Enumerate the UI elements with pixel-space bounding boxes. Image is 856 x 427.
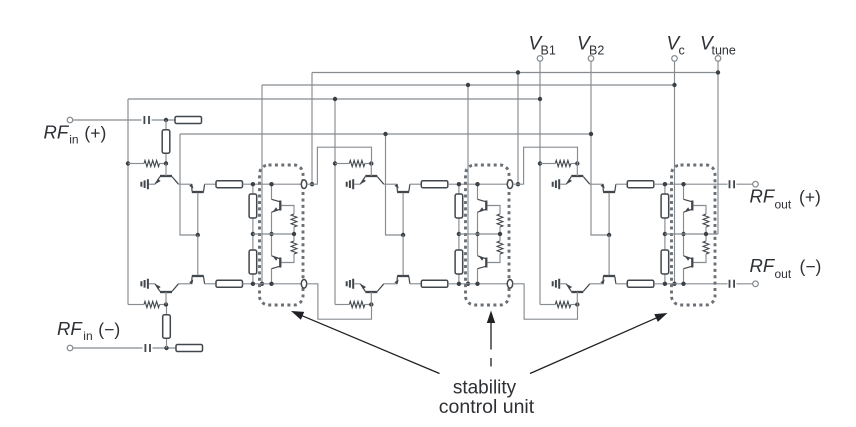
wire bus Vtune y=72.5 <box>312 72 718 74</box>
wire to RFout- <box>736 283 753 285</box>
wire Vtune vertical to box3 rail <box>717 73 719 235</box>
capacitor C1 <box>144 116 149 124</box>
capacitor C3 output+ <box>730 180 735 188</box>
feedthrough lower box1 <box>301 280 306 289</box>
wire C2 to node <box>153 347 177 349</box>
wire transistor column box2 <box>477 184 479 199</box>
transistor Q6 cascode upper stage2 <box>397 191 409 193</box>
resistor upper box3 <box>661 194 669 218</box>
svg-text:c: c <box>679 44 685 58</box>
wire Q4 collector to TL <box>204 283 216 285</box>
terminal Vtune <box>715 56 721 62</box>
svg-text:tune: tune <box>712 44 736 58</box>
svg-text:out: out <box>775 198 792 212</box>
resistor R2 input <box>166 305 168 349</box>
svg-text:(+): (+) <box>84 123 106 143</box>
transistor lower box3 <box>691 258 693 268</box>
wire shunt resistor column box1 <box>252 184 254 284</box>
transmission line upper stage1 <box>216 181 243 188</box>
wire Q1 collector to Q2 emitter <box>179 183 192 185</box>
resistor zigzag lower box1 <box>291 241 297 254</box>
wire Q2 base <box>197 193 199 235</box>
stability control unit box2 dashed outline <box>466 165 510 305</box>
arrow to box1 <box>298 314 440 374</box>
wire transistor column box1 <box>271 184 273 199</box>
wire bus VB1 y=99 <box>128 98 540 100</box>
wire Q8 base <box>402 235 404 275</box>
current source upper stage3 <box>553 179 560 189</box>
svg-text:B2: B2 <box>589 44 604 58</box>
wire coupling upper box2 to stage3 <box>513 147 578 184</box>
resistor zigzag lower box2 <box>497 241 503 254</box>
wire coupling upper box1 to stage2 <box>307 147 372 184</box>
feedthrough upper box1 <box>301 180 306 189</box>
svg-text:stability: stability <box>453 377 517 398</box>
wire VB1 feed stage2 <box>334 99 336 305</box>
transistor Q8 cascode lower stage2 <box>397 275 409 277</box>
wire Q9 collector to Q10 emitter <box>590 183 603 185</box>
resistor base bias lower stage1 <box>144 301 160 307</box>
transmission line lower stage3 <box>627 280 654 287</box>
terminal RFout+ <box>753 181 759 187</box>
wire Vtune tap after box2 <box>517 73 519 185</box>
transistor Q5 upper stage2 <box>365 175 377 177</box>
terminal RFin- <box>67 345 73 351</box>
transistor Q7 lower stage2 <box>365 291 377 293</box>
wire Q11 collector to Q12 emitter <box>590 283 603 285</box>
wire VB1 feed stage1 <box>127 99 129 305</box>
wire RFin- to C2 <box>73 347 143 349</box>
transistor Q12 cascode lower stage3 <box>603 275 615 277</box>
transistor Q4 cascode lower stage1 <box>192 275 204 277</box>
open stub TL1 <box>175 117 202 124</box>
wire shunt resistor column box3 <box>664 184 666 284</box>
svg-text:in: in <box>69 133 78 147</box>
terminal Vc <box>672 56 678 62</box>
capacitor C4 output- <box>730 280 735 288</box>
feedthrough lower box2 <box>507 280 512 289</box>
current source upper stage1 <box>141 179 148 189</box>
svg-text:RF: RF <box>57 318 83 339</box>
wire Vc feed box2 <box>467 85 469 284</box>
resistor lower box1 <box>249 250 257 274</box>
wire Q3 collector to Q4 emitter <box>179 283 192 285</box>
svg-text:B1: B1 <box>541 44 556 58</box>
svg-text:(−): (−) <box>800 257 822 277</box>
wire bus Vc y=85 <box>262 84 675 86</box>
wire Q10 collector to TL <box>616 183 628 185</box>
stability control unit box1 dashed outline <box>260 165 304 305</box>
wire transistor column box3 <box>683 184 685 199</box>
resistor base bias lower stage3 <box>555 301 571 307</box>
resistor lower box3 <box>661 250 669 274</box>
transistor Q2 cascode upper stage1 <box>192 191 204 193</box>
svg-text:control unit: control unit <box>439 396 535 418</box>
svg-text:RF: RF <box>750 186 776 207</box>
wire Q4 base <box>197 235 199 275</box>
wire TL into stability box1 <box>243 183 305 185</box>
resistor zigzag upper box3 <box>703 214 709 227</box>
transistor upper box1 <box>279 201 281 211</box>
wire Vc vertical through box3 <box>674 85 676 284</box>
resistor base bias upper stage1 <box>144 160 160 166</box>
transistor upper box3 <box>691 201 693 211</box>
wire mid rail box1 <box>253 233 294 235</box>
resistor zigzag upper box1 <box>291 214 297 227</box>
wire TL into stability box1 lower <box>243 283 305 285</box>
terminal VB1 <box>537 56 543 62</box>
svg-text:out: out <box>775 267 792 281</box>
wire bus VB2 y=134 <box>180 133 591 135</box>
wire Q6 base <box>402 193 404 235</box>
transistor Q10 cascode upper stage3 <box>603 191 615 193</box>
wire shunt resistor column box2 <box>458 184 460 284</box>
svg-text:RF: RF <box>750 255 776 276</box>
wire mid rail box3 <box>665 233 718 235</box>
resistor base bias upper stage2 <box>349 160 365 166</box>
transmission line upper stage2 <box>421 181 448 188</box>
wire VB2 vertical to stage3 cascode base <box>591 134 609 235</box>
resistor upper box1 <box>249 194 257 218</box>
transistor lower box2 <box>485 258 487 268</box>
capacitor C2 <box>145 344 150 352</box>
current source lower stage3 <box>553 279 560 289</box>
resistor base bias lower stage2 <box>349 301 365 307</box>
resistor base bias upper stage3 <box>555 160 571 166</box>
current source upper stage2 <box>347 179 354 189</box>
transistor upper box2 <box>485 201 487 211</box>
terminal RFout- <box>753 281 759 287</box>
wire C1 to node <box>152 119 176 121</box>
svg-text:(−): (−) <box>98 320 120 340</box>
wire coupling lower box2 to stage3 <box>513 284 578 319</box>
transistor Q3 lower stage1 <box>160 291 172 293</box>
wire VB2 feed stage2 cascode bases <box>386 134 404 235</box>
wire TL into stability box2 <box>448 183 510 185</box>
resistor upper box2 <box>455 194 463 218</box>
transmission line upper stage3 <box>627 181 654 188</box>
current source lower stage1 <box>141 279 148 289</box>
svg-text:in: in <box>83 329 92 343</box>
open stub TL2 <box>176 345 203 352</box>
wire Q2 collector to TL <box>204 183 216 185</box>
wire Q8 collector to TL <box>410 283 422 285</box>
svg-text:(+): (+) <box>799 187 821 207</box>
wire to RFout+ <box>736 183 753 185</box>
wire Q6 collector to TL <box>410 183 422 185</box>
resistor zigzag upper box2 <box>497 214 503 227</box>
wire coupling lower box1 to stage2 <box>307 284 372 319</box>
terminal RFin+ <box>67 117 73 123</box>
resistor lower box2 <box>455 250 463 274</box>
transmission line lower stage1 <box>216 280 243 287</box>
arrow to box2 <box>490 317 492 350</box>
wire mid rail box2 <box>459 233 500 235</box>
wire Q12 collector to TL <box>616 283 628 285</box>
resistor zigzag lower box3 <box>703 241 709 254</box>
wire TL into stability box3 <box>654 183 728 185</box>
terminal VB2 <box>588 56 594 62</box>
transistor Q9 upper stage3 <box>571 175 583 177</box>
wire TL into stability box2 lower <box>448 283 510 285</box>
wire Vtune tap after box1 <box>311 73 313 185</box>
wire RFin+ to C1 <box>73 119 142 121</box>
svg-text:RF: RF <box>44 122 70 143</box>
wire Q5 collector to Q6 emitter <box>384 183 397 185</box>
transistor Q1 upper stage1 <box>160 175 172 177</box>
transistor Q11 lower stage3 <box>571 291 583 293</box>
feedthrough upper box2 <box>507 180 512 189</box>
wire Q7 collector to Q8 emitter <box>384 283 397 285</box>
wire Q10 base <box>608 193 610 235</box>
transistor lower box1 <box>279 258 281 268</box>
resistor R1 input <box>165 120 167 164</box>
wire TL into stability box3 lower <box>654 283 728 285</box>
wire Vc feed box1 <box>261 85 263 284</box>
wire VB2 feed stage1 cascode bases <box>180 134 198 235</box>
stability control unit box3 dashed outline <box>672 165 716 305</box>
arrow to box3 <box>530 316 662 374</box>
transmission line lower stage2 <box>421 280 448 287</box>
wire VB1 vertical to stage3 bias <box>539 99 541 305</box>
wire Q12 base <box>608 235 610 275</box>
current source lower stage2 <box>347 279 354 289</box>
